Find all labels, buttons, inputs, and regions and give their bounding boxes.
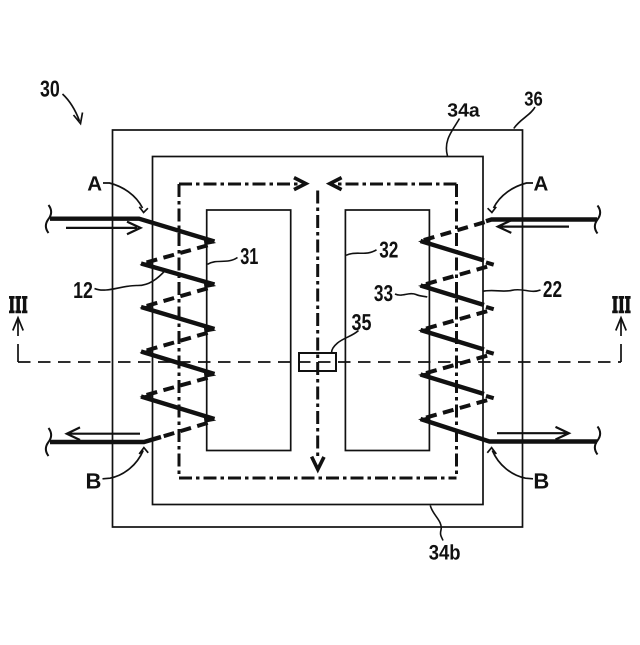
- label 33 leader: [395, 294, 427, 297]
- coil 12 back wire d4: [141, 376, 213, 396]
- label 34a leader: [446, 119, 459, 157]
- svg-text:31: 31: [240, 243, 258, 269]
- svg-text:A: A: [87, 173, 102, 196]
- section line III-III (dashed centerline): [18, 361, 621, 363]
- section line right end stub: [620, 318, 622, 362]
- coil 22 back wire dc: [421, 355, 492, 375]
- right lead-in break mark: [595, 206, 600, 234]
- coil 22 back wire dd: [421, 399, 492, 419]
- svg-text:34a: 34a: [447, 101, 480, 122]
- coil 12 left wedge 2: [140, 261, 153, 269]
- coil 22 front wire d: [421, 375, 485, 395]
- coil 22 front wire a: [421, 241, 485, 261]
- label 30 leader arrow: [63, 94, 83, 124]
- label 35 leader: [332, 331, 359, 353]
- coil 12 left wedge 4: [140, 349, 153, 357]
- label 22 leader: [483, 290, 541, 292]
- svg-text:36: 36: [524, 88, 543, 110]
- coil 12 back wire d1: [141, 244, 213, 264]
- coil 12 back wire d2: [141, 287, 213, 308]
- svg-text:22: 22: [543, 276, 562, 302]
- svg-text:B: B: [86, 468, 102, 493]
- label III right: [612, 296, 630, 313]
- left lead-in current arrow: [66, 222, 141, 235]
- coil 12 back wire d5: [161, 421, 213, 437]
- label A left leader arrow: [103, 183, 148, 213]
- section line left end stub: [17, 318, 19, 362]
- label 36 leader: [514, 107, 535, 129]
- coil 22 left wedge 4: [418, 371, 431, 379]
- section line right arrowhead: [616, 318, 626, 331]
- coil 12 back wire d3: [141, 331, 213, 352]
- svg-text:A: A: [533, 173, 548, 196]
- label 12 leader: [95, 270, 166, 290]
- right lead-in wire (top): [486, 220, 597, 222]
- left lead-out current arrow: [67, 427, 140, 440]
- svg-text:33: 33: [374, 280, 393, 306]
- coil 22 turn wedge b: [486, 307, 494, 309]
- coil 22 left wedge 1: [418, 238, 431, 246]
- coil 22 front wire c: [421, 330, 485, 350]
- coil 12 left wedge 5: [140, 393, 153, 401]
- section line left arrowhead: [13, 318, 23, 331]
- coil 12 turn wedge 1: [204, 237, 217, 246]
- label 34b leader: [430, 506, 443, 541]
- flux path top-right horizontal with left arrow: [335, 183, 457, 186]
- label 31 leader: [208, 258, 238, 265]
- left lead-out break mark: [46, 428, 51, 456]
- label B left leader arrow: [103, 448, 149, 479]
- svg-text:35: 35: [352, 309, 372, 335]
- left core window 31: [207, 210, 291, 451]
- svg-text:30: 30: [40, 76, 60, 102]
- svg-text:B: B: [533, 468, 549, 493]
- coil 22 back wire da: [421, 266, 492, 286]
- coil 12 left wedge 3: [140, 304, 153, 312]
- label III left: [9, 296, 27, 313]
- coil 12 front wire s4: [141, 352, 215, 375]
- coil 22 back wire db: [421, 310, 492, 330]
- svg-text:32: 32: [379, 237, 398, 263]
- coil 22 turn wedge c: [486, 351, 494, 353]
- right lead-out break mark: [595, 427, 600, 455]
- coil 22 turn wedge d: [486, 396, 494, 398]
- coil 12 front wire s2: [141, 264, 215, 285]
- left lead-in break mark: [46, 205, 51, 233]
- coil 22 turn wedge a: [486, 262, 494, 264]
- label B right leader arrow: [487, 448, 533, 479]
- coil 12 turn wedge 4: [204, 369, 217, 378]
- component 35 rectangle: [299, 353, 336, 371]
- right lead-in current arrow: [498, 220, 569, 233]
- right core window 32: [345, 210, 429, 451]
- core outer boundary (inner rectangle, yokes 34a/34b): [153, 157, 484, 505]
- coil 22 left wedge 2: [418, 282, 431, 290]
- flux path left vertical (dash-dot): [178, 184, 181, 478]
- flux path top-left horizontal with right arrow: [179, 183, 301, 186]
- coil 12 front wire s5: [141, 397, 215, 420]
- left lead-in wire (top): [50, 219, 215, 242]
- coil 12 turn wedge 3: [204, 324, 217, 333]
- coil 12 turn wedge 2: [204, 280, 217, 289]
- label 32 leader: [346, 250, 377, 256]
- flux path right vertical (dash-dot): [455, 184, 458, 478]
- coil 12 front wire s3: [141, 307, 215, 329]
- right lead-out current arrow: [497, 427, 569, 440]
- flux path bottom horizontal (dash-dot): [179, 477, 457, 480]
- svg-text:34b: 34b: [429, 542, 461, 565]
- coil 22 left wedge 3: [418, 327, 431, 335]
- outer case rectangle 36: [113, 130, 523, 527]
- svg-text:12: 12: [73, 277, 93, 303]
- coil 22 back wire from lead: [421, 221, 490, 241]
- flux path center vertical with down arrow: [316, 191, 319, 458]
- coil 22 front wire e and right lead-out: [421, 419, 598, 442]
- coil 22 left wedge 5: [418, 416, 431, 424]
- label A right leader arrow: [488, 183, 533, 213]
- coil 12 turn wedge 5: [204, 414, 217, 423]
- coil 22 front wire b: [421, 286, 485, 306]
- left lead-out wire (bottom): [50, 437, 161, 442]
